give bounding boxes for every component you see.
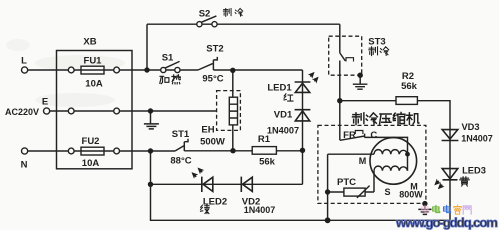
svg-text:56k: 56k: [401, 81, 418, 92]
svg-text:800W: 800W: [399, 190, 423, 200]
svg-text:S: S: [384, 187, 390, 197]
svg-text:www.go-gddq.com: www.go-gddq.com: [395, 215, 498, 230]
svg-text:PTC: PTC: [337, 177, 356, 188]
svg-text:1N4007: 1N4007: [267, 126, 299, 136]
svg-text:VD3: VD3: [461, 122, 479, 132]
svg-text:500W: 500W: [200, 137, 225, 148]
svg-text:ST3: ST3: [368, 37, 385, 48]
svg-text:EH: EH: [201, 125, 214, 136]
svg-text:LED1: LED1: [267, 83, 292, 94]
svg-text:R1: R1: [258, 134, 271, 145]
svg-text:M: M: [359, 156, 367, 166]
svg-text:ST1: ST1: [172, 129, 190, 140]
svg-text:S1: S1: [162, 53, 174, 64]
svg-text:FU2: FU2: [82, 136, 100, 147]
svg-text:C: C: [370, 130, 377, 141]
svg-text:1N4007: 1N4007: [244, 205, 276, 215]
svg-text:AC220V: AC220V: [5, 107, 39, 117]
svg-text:XB: XB: [83, 37, 96, 48]
svg-text:LED3: LED3: [462, 166, 486, 176]
svg-text:88°C: 88°C: [170, 156, 191, 167]
svg-text:VD1: VD1: [274, 110, 293, 121]
svg-text:N: N: [21, 160, 28, 171]
svg-text:10A: 10A: [85, 79, 103, 90]
svg-text:ST2: ST2: [206, 44, 223, 55]
svg-text:1N4007: 1N4007: [461, 134, 493, 144]
svg-text:56k: 56k: [259, 157, 276, 168]
svg-text:FR: FR: [343, 130, 356, 141]
svg-text:10A: 10A: [82, 158, 100, 169]
svg-text:E: E: [42, 97, 48, 108]
svg-text:S2: S2: [199, 9, 211, 20]
svg-text:L: L: [21, 56, 27, 67]
svg-text:FU1: FU1: [84, 56, 103, 67]
svg-text:95°C: 95°C: [202, 74, 223, 85]
